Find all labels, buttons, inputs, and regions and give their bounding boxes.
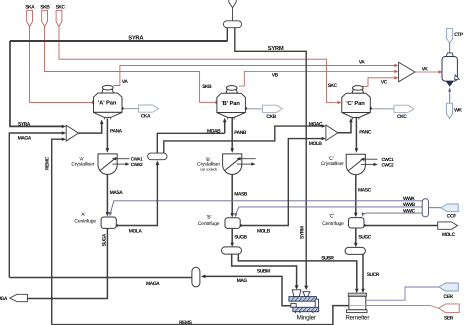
flag SKC: [56, 10, 62, 26]
wire SUBR: [238, 254, 356, 289]
arrow SYRA into mixer A: [62, 125, 66, 128]
svg-text:SUGA: SUGA: [0, 296, 8, 302]
wire CTP to condenser: [449, 43, 451, 53]
vessel wash water capsule: [422, 199, 428, 217]
svg-text:MAGA: MAGA: [18, 135, 32, 141]
svg-text:WWC: WWC: [403, 208, 415, 214]
wire CWA1: [116, 158, 130, 160]
svg-text:CWC1: CWC1: [382, 157, 395, 162]
mingler upper trough: [289, 297, 317, 302]
svg-text:VA: VA: [359, 60, 365, 66]
vessel A pan body: [94, 93, 123, 112]
wire CWC2: [361, 163, 374, 165]
svg-text:VC: VC: [381, 79, 388, 85]
svg-text:SYRA: SYRA: [18, 121, 31, 127]
svg-text:Centrifuge: Centrifuge: [322, 221, 344, 227]
vessel condenser cone: [446, 81, 455, 87]
svg-text:SYRM: SYRM: [300, 226, 306, 239]
wire CWC1: [364, 158, 378, 160]
svg-text:SKA: SKA: [25, 4, 35, 10]
svg-text:Remelter: Remelter: [345, 315, 369, 322]
vessel magma pill: [192, 267, 200, 287]
wire MAG: [205, 276, 293, 305]
wire WWC: [363, 212, 422, 215]
svg-text:CER: CER: [443, 294, 453, 300]
arrow MASA into centrifuge A: [106, 212, 110, 216]
svg-text:WWA: WWA: [403, 196, 415, 202]
flag CER: [439, 283, 459, 291]
collector triangle VK: [399, 62, 415, 82]
svg-text:SUCR: SUCR: [367, 272, 380, 278]
svg-text:CTP: CTP: [454, 32, 464, 38]
wire MOAB rise into B pan: [224, 122, 226, 134]
mixer triangle C: [326, 125, 338, 141]
wire SKC feed to C pan: [59, 27, 339, 103]
svg-text:MOLB: MOLB: [309, 141, 323, 147]
junction dot A pan outlet: [121, 107, 123, 109]
wire CWB2: [237, 163, 252, 165]
vessel B pan funnel: [217, 113, 246, 118]
wire VK to condenser: [415, 71, 439, 73]
junction dot centrifuge A outlet: [116, 224, 118, 226]
wire SUGB: [231, 229, 233, 243]
arrow CWB2 out: [251, 162, 255, 165]
arrow MOAC into mixer C: [322, 124, 326, 127]
svg-text:VB: VB: [272, 73, 279, 79]
svg-text:SUGC: SUGC: [358, 234, 371, 240]
junction dot centrifuge B outlet: [240, 224, 242, 226]
wire VB vapour B pan to collector: [239, 72, 395, 87]
wire VC vapour C pan to collector: [362, 78, 395, 87]
svg-text:SKB: SKB: [40, 4, 50, 10]
flag SKA: [27, 10, 33, 26]
svg-text:SKB: SKB: [202, 84, 212, 90]
flag WK: [446, 103, 452, 118]
svg-text:MAGA: MAGA: [146, 281, 160, 287]
wire MASB: [231, 175, 233, 214]
svg-text:CWA1: CWA1: [131, 156, 143, 161]
svg-text:REMS: REMS: [179, 320, 193, 325]
flag CKA: [139, 105, 159, 112]
svg-text:Centrifuge: Centrifuge: [198, 221, 220, 227]
mingler left hopper: [292, 290, 301, 297]
capsule syrup receiver: [223, 21, 241, 28]
vessel C pan body: [342, 93, 371, 112]
junction dot REMC-SUGA: [50, 297, 53, 300]
arrow MOLB into mixer C: [322, 137, 326, 140]
arrow MOAB into B pan: [223, 118, 227, 123]
svg-text:CWA2: CWA2: [131, 162, 143, 167]
wire SYRA thick top: [10, 40, 227, 42]
machine mingler: [289, 290, 319, 313]
svg-text:'C': 'C': [329, 213, 334, 219]
vessel B sugar receiver: [222, 247, 242, 254]
vessel B crystalliser: [223, 154, 242, 175]
junction dot B pan outlet: [245, 107, 247, 109]
wire WWB: [236, 207, 422, 214]
svg-text:REMC: REMC: [45, 156, 51, 170]
svg-text:PANA: PANA: [110, 128, 123, 134]
wire SUGC: [355, 228, 357, 243]
svg-text:PANC: PANC: [359, 130, 372, 136]
arrow SUCR into remelter: [361, 289, 365, 293]
stirrer A crystalliser: [100, 158, 115, 170]
wire MOLC: [364, 225, 438, 227]
svg-text:MOLA: MOLA: [129, 228, 143, 234]
wire mixer C to C pan: [338, 122, 351, 133]
wire left border SYRA vertical: [10, 41, 63, 126]
svg-text:MOAB: MOAB: [207, 128, 221, 134]
vessel remelter top hatch: [348, 293, 366, 296]
arrow SUGB into receiver: [230, 243, 234, 247]
wire SUCR: [362, 255, 364, 289]
arrow SYRM into mingler: [304, 286, 308, 290]
arrow SUBR into remelter: [355, 289, 359, 293]
flag SUGA: [10, 294, 28, 301]
svg-text:MASB: MASB: [234, 191, 248, 197]
svg-text:CKB: CKB: [266, 114, 276, 120]
flag CKC: [394, 105, 414, 112]
flag MOLC: [438, 222, 458, 229]
wire REMS: [52, 306, 349, 325]
svg-text:CCF: CCF: [447, 213, 456, 219]
svg-text:MASC: MASC: [358, 187, 372, 193]
arrow CWB1 in: [236, 157, 240, 160]
arrow REMC into mixer A: [62, 138, 66, 141]
svg-text:WK: WK: [454, 108, 462, 114]
arrow CWA2 out: [125, 162, 129, 165]
wire mixer A to A pan: [78, 124, 101, 134]
svg-text:Crystalliser: Crystalliser: [321, 161, 344, 167]
svg-text:SUGA: SUGA: [102, 233, 108, 246]
flag SER: [439, 304, 459, 313]
svg-text:SUBR: SUBR: [321, 256, 334, 262]
vessel A pan dome: [102, 90, 114, 94]
svg-text:VA: VA: [122, 79, 128, 85]
svg-text:SKC: SKC: [56, 4, 66, 10]
mingler MAG inlet box: [291, 304, 296, 308]
wire CER from remelter: [366, 287, 439, 300]
svg-text:SYRM: SYRM: [268, 45, 284, 52]
arrow MAGA into mixer A: [62, 131, 66, 134]
arrow SKC into C pan: [338, 101, 342, 105]
arrow WWC into centrifuge C: [361, 212, 365, 216]
arrow PANA into crystalliser A: [106, 148, 110, 152]
svg-text:'C' Pan: 'C' Pan: [346, 100, 365, 107]
vessel condenser spout: [455, 75, 460, 80]
arrow SUGC into receiver: [354, 243, 358, 247]
svg-text:MAG: MAG: [237, 278, 248, 284]
arrow CWA1 in: [112, 157, 116, 160]
wire MOLA: [117, 165, 158, 226]
arrow SUBM into mingler: [295, 285, 299, 289]
wire SYRM: [235, 28, 306, 287]
svg-text:'B' Pan: 'B' Pan: [221, 101, 240, 107]
arrow MASC into centrifuge C: [354, 213, 358, 217]
mingler upper trough hatching: [291, 297, 315, 301]
junction dot centrifuge C outlet: [364, 224, 366, 226]
wire SKB feed to B pan: [45, 27, 217, 103]
wire MAGA bottom: [9, 277, 191, 279]
arrow CWC1 in: [360, 158, 364, 161]
wire VA vapour A pan to collector: [113, 65, 394, 85]
wire syrup flag stem: [232, 8, 234, 21]
wire PANA: [106, 119, 108, 149]
wire CWA2: [113, 163, 126, 165]
vessel remelter base: [346, 310, 367, 313]
vessel B pan body: [217, 93, 246, 112]
mingler lower trough: [293, 307, 319, 311]
wire REMC vertical: [52, 139, 63, 324]
vessel C centrifuge: [349, 218, 365, 228]
svg-text:PANB: PANB: [234, 130, 247, 136]
flag SKB: [42, 10, 48, 26]
wire WWA: [111, 201, 423, 213]
vessel remelter level line: [350, 305, 365, 307]
svg-text:WWB: WWB: [403, 202, 415, 208]
flag CTP: [447, 29, 453, 43]
vessel A crystalliser: [98, 154, 117, 175]
wire capsule to CCF: [429, 207, 441, 209]
svg-text:SKC: SKC: [328, 83, 338, 89]
wire WK to condenser: [449, 91, 451, 104]
svg-text:MASA: MASA: [110, 190, 124, 196]
arrow PANC into crystalliser C: [355, 148, 359, 152]
flag syrup top: [229, 0, 236, 8]
mixer triangle A: [66, 125, 78, 141]
svg-text:SUBM: SUBM: [257, 268, 270, 274]
vessel remelter body: [349, 296, 366, 310]
svg-text:MOAC: MOAC: [309, 122, 323, 128]
vessel B centrifuge: [225, 218, 240, 229]
vessel C pan funnel: [342, 113, 371, 118]
svg-text:SER: SER: [444, 316, 454, 322]
stirrer C crystalliser: [348, 159, 363, 171]
arrow VA into collector: [394, 64, 398, 68]
vessel A centrifuge: [101, 217, 116, 228]
wire CWB1: [240, 158, 256, 160]
svg-text:Crystalliser: Crystalliser: [71, 162, 94, 168]
wire PANC: [355, 118, 357, 149]
mingler right duct: [315, 299, 318, 308]
svg-text:VK: VK: [422, 67, 429, 73]
svg-text:MOLC: MOLC: [442, 232, 456, 238]
arrow WWA into centrifuge A: [109, 212, 113, 217]
arrow CWC2 out: [374, 163, 378, 166]
svg-text:SUGB: SUGB: [234, 234, 247, 240]
wire C pan to CKC: [370, 108, 394, 110]
svg-text:'A': 'A': [81, 212, 86, 218]
vessel B pan dome: [226, 90, 238, 94]
junction dot C pan outlet: [370, 107, 372, 109]
mingler feet: [296, 312, 314, 314]
vessel A pan funnel: [94, 112, 123, 117]
wire B pan to CKB: [245, 108, 262, 110]
wire SUGA: [28, 229, 108, 299]
svg-text:Centrifuge: Centrifuge: [74, 218, 96, 224]
wire MOLB: [240, 139, 322, 226]
wire SKA feed to A pan: [30, 27, 92, 103]
svg-text:MOLB: MOLB: [257, 229, 271, 235]
wire capsule to SYRA: [226, 28, 228, 41]
arrow feed into C pan: [349, 118, 353, 123]
arrow VB into collector: [394, 70, 398, 74]
arrow MOLA into capsule: [156, 160, 160, 165]
wire PANB: [231, 118, 233, 149]
mingler lower trough hatching: [295, 308, 318, 312]
arrow VC into collector: [394, 76, 398, 80]
vessel condenser body: [442, 57, 457, 82]
arrow MASB into centrifuge B: [230, 213, 234, 217]
wire MASA: [106, 175, 108, 213]
wire MOAB from capsule: [157, 133, 224, 153]
vessel MOLA capsule: [148, 153, 167, 160]
arrow VK into condenser: [439, 70, 443, 74]
svg-text:SYRA: SYRA: [128, 35, 144, 42]
wire SER from remelter: [366, 306, 439, 309]
svg-text:CKC: CKC: [397, 114, 407, 120]
mingler right hopper: [303, 292, 310, 297]
vessel C pan dome: [352, 90, 364, 94]
svg-text:(air cooled): (air cooled): [200, 168, 216, 172]
svg-text:CWC2: CWC2: [382, 163, 395, 168]
flag CCF: [441, 204, 459, 212]
wire MAGA left vertical: [9, 133, 62, 278]
vessel condenser neck: [446, 53, 453, 57]
svg-text:CKA: CKA: [141, 114, 151, 120]
svg-text:Mingler: Mingler: [297, 315, 316, 322]
arrow SKA into A pan: [92, 101, 96, 105]
stirrer B crystalliser: [225, 158, 240, 170]
arrow WK into condenser: [448, 87, 451, 91]
arrow WWB into centrifuge B: [234, 213, 238, 218]
arrow PANB into crystalliser B: [230, 148, 234, 152]
svg-text:'A' Pan: 'A' Pan: [98, 101, 117, 107]
arrow SKB into B pan: [216, 101, 220, 105]
wire A pan to CKA: [122, 108, 139, 110]
wire MOAC: [164, 126, 322, 153]
arrow feed up into A pan: [100, 120, 104, 124]
arrow MAG into magma pill: [201, 275, 206, 279]
wire MASC: [355, 175, 357, 213]
svg-text:'B': 'B': [207, 214, 212, 220]
vessel C crystalliser: [346, 154, 365, 175]
vessel C sugar receiver: [345, 247, 365, 254]
wire SUBM: [232, 254, 297, 285]
flag CKB: [263, 105, 283, 112]
